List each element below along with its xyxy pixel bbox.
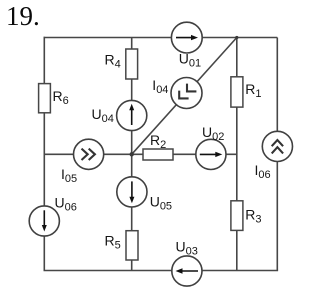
source U04 <box>92 100 147 130</box>
svg-text:I06: I06 <box>255 162 271 181</box>
node top-right junction <box>235 36 238 39</box>
svg-text:I04: I04 <box>152 77 168 96</box>
source U06 <box>29 195 77 237</box>
resistor R4 <box>105 49 138 79</box>
wire middle horizontal <box>44 153 237 155</box>
svg-text:R3: R3 <box>245 206 261 225</box>
resistor R1 <box>231 77 262 107</box>
wire bottom horizontal <box>44 270 279 272</box>
svg-text:U06: U06 <box>55 195 77 214</box>
wire left vertical <box>43 37 45 271</box>
svg-text:U05: U05 <box>150 194 172 213</box>
resistor R3 <box>231 201 262 231</box>
source U05 <box>117 177 172 213</box>
wire center vertical <box>131 38 133 271</box>
wire diagonal <box>132 38 237 155</box>
wire right vertical <box>276 38 278 271</box>
resistor R6 <box>39 84 69 113</box>
svg-text:R5: R5 <box>105 233 121 252</box>
svg-text:U03: U03 <box>176 239 198 258</box>
current source I04 <box>152 77 202 109</box>
svg-text:U04: U04 <box>92 106 114 125</box>
current source I05 <box>61 139 104 185</box>
svg-text:R1: R1 <box>245 81 261 100</box>
current source I06 <box>255 131 293 181</box>
svg-text:19.: 19. <box>6 1 40 31</box>
svg-text:R6: R6 <box>53 88 69 107</box>
svg-text:R4: R4 <box>105 52 121 71</box>
node center junction <box>130 152 134 156</box>
resistor R5 <box>105 231 139 260</box>
wire inner-right vertical <box>236 38 238 271</box>
resistor R2 <box>143 132 173 160</box>
wire top horizontal <box>44 37 278 39</box>
svg-text:I05: I05 <box>61 166 77 185</box>
source U02 <box>196 124 226 170</box>
source U01 <box>171 22 202 69</box>
source U03 <box>172 239 202 287</box>
